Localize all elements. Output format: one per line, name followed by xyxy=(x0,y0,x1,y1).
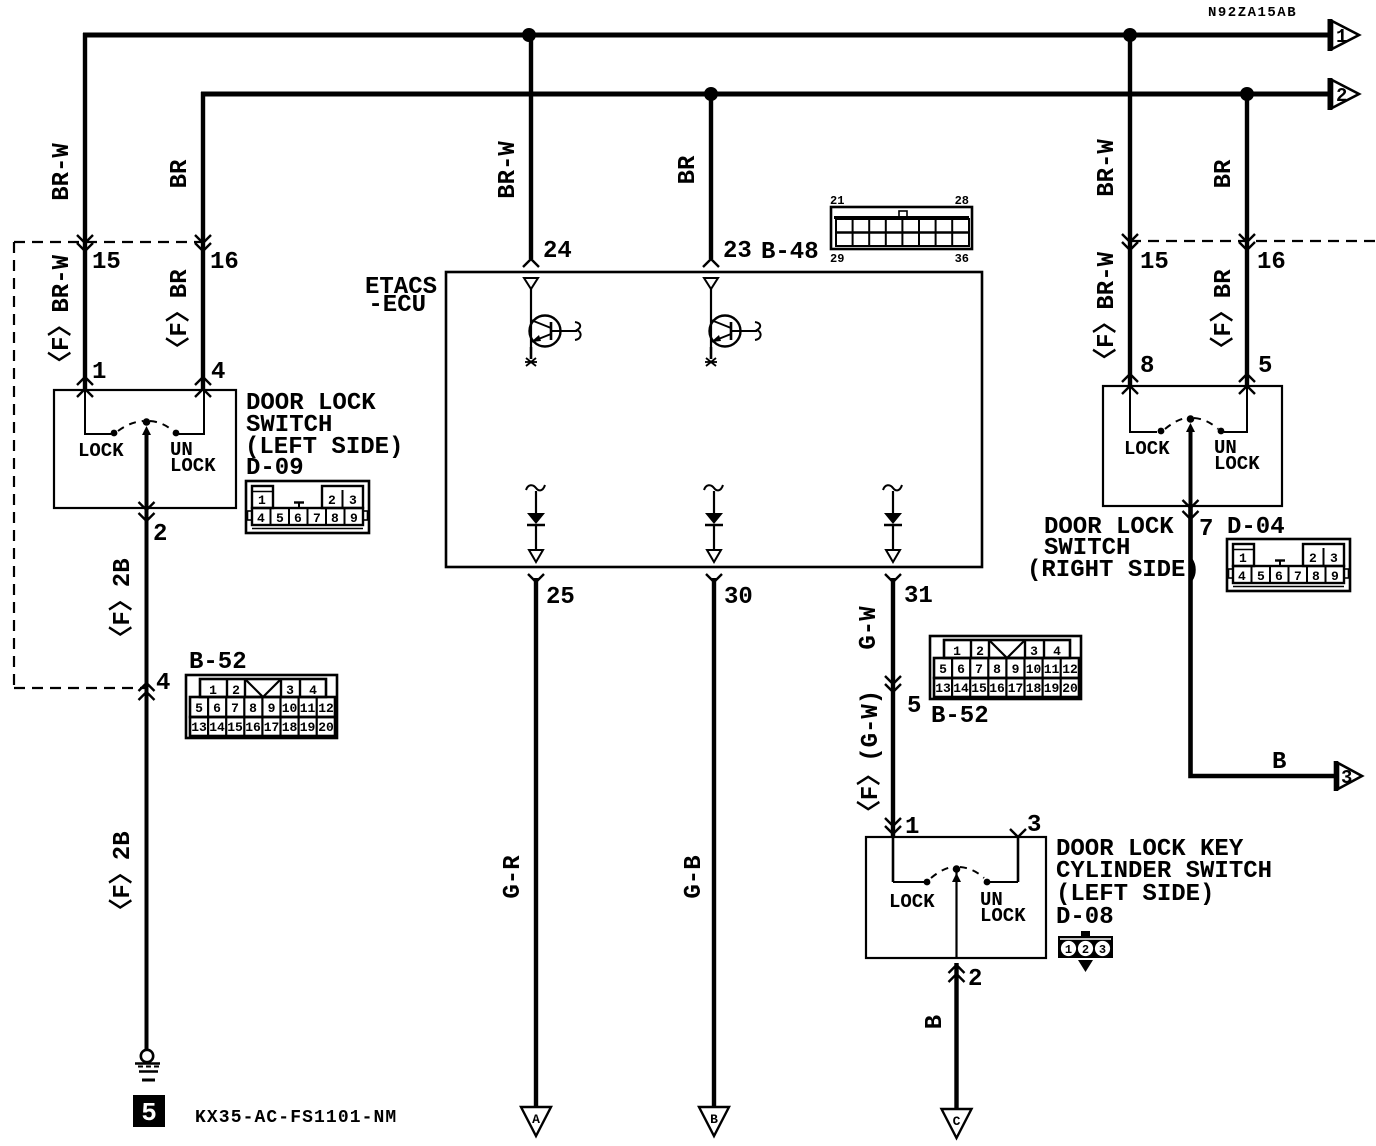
svg-text:B: B xyxy=(922,1015,949,1029)
wire: BR-W drop to D-09 pin 1 (x=85) xyxy=(83,33,87,390)
svg-text:3: 3 xyxy=(286,683,294,698)
transistor Q (pin 24 driver) xyxy=(524,278,581,366)
svg-text:A: A xyxy=(532,1112,540,1127)
contact UNLOCK xyxy=(1218,428,1225,435)
switch S: door lock key cylinder switch D-08 box xyxy=(866,837,1046,958)
svg-text:LOCK: LOCK xyxy=(980,905,1026,927)
diode D (pin 31 branch) xyxy=(883,485,902,562)
connector B-48 pin diagram xyxy=(830,194,972,266)
svg-text:15: 15 xyxy=(1140,249,1169,276)
dashed wiper arcs xyxy=(931,867,953,878)
svg-text:〈F〉(G-W): 〈F〉(G-W) xyxy=(856,690,885,824)
wire G-B to arrow B xyxy=(712,578,716,1108)
svg-text:2: 2 xyxy=(968,966,982,993)
svg-text:7: 7 xyxy=(1199,516,1213,543)
svg-text:7: 7 xyxy=(231,701,239,716)
svg-text:17: 17 xyxy=(264,720,280,735)
connector marks pin 7 xyxy=(1183,500,1199,508)
switch pivot xyxy=(1187,415,1195,423)
svg-text:4: 4 xyxy=(211,359,225,386)
ETACS pin 30 mark xyxy=(706,574,722,582)
svg-text:36: 36 xyxy=(955,252,969,266)
connector marks pin 1 of D-08 xyxy=(885,818,901,826)
connector mark pin 24 xyxy=(523,259,539,267)
svg-text:3: 3 xyxy=(1027,812,1041,839)
svg-text:〈F〉2B: 〈F〉2B xyxy=(108,558,137,649)
connector marks pin 5 of B-52 xyxy=(885,676,901,684)
svg-text:15: 15 xyxy=(92,249,121,276)
switch S: door lock switch left D-09 box xyxy=(54,390,236,508)
svg-text:G-B: G-B xyxy=(681,855,708,898)
svg-text:4: 4 xyxy=(309,683,317,698)
switch S: door lock switch right D-04 box xyxy=(1103,386,1282,506)
wiper arrow xyxy=(952,873,961,882)
svg-text:9: 9 xyxy=(350,511,358,526)
svg-text:5: 5 xyxy=(1258,353,1272,380)
wire pin 7 to off-page arrow 3 xyxy=(1191,506,1337,776)
svg-text:8: 8 xyxy=(331,511,339,526)
wire B to arrow C xyxy=(954,963,958,1110)
svg-text:2: 2 xyxy=(153,521,167,548)
connector mark pin 3 xyxy=(1010,829,1026,837)
contact LOCK xyxy=(111,430,118,437)
connector marks 16 on dashed line xyxy=(1239,234,1255,242)
wire G-R to arrow A xyxy=(534,578,538,1108)
wire pin5 internal xyxy=(1224,386,1247,432)
svg-text:24: 24 xyxy=(543,238,572,265)
connector marks pin 4 of B-52 xyxy=(139,683,155,691)
sheet number 5 xyxy=(133,1095,165,1127)
contact UNLOCK xyxy=(984,879,991,886)
junction on bus 1 at x=528 xyxy=(522,28,536,42)
svg-text:2: 2 xyxy=(328,493,336,508)
wire: BR drop to D-09 pin 4 (x=203) xyxy=(201,92,205,390)
svg-text:1: 1 xyxy=(258,493,266,508)
svg-text:1: 1 xyxy=(92,359,106,386)
off-page arrow C xyxy=(942,1109,972,1138)
ETACS pin 31 mark xyxy=(885,574,901,582)
svg-text:〈F〉BR: 〈F〉BR xyxy=(1209,269,1238,361)
wire G-W to key cylinder switch xyxy=(891,578,895,837)
wire pin1 internal xyxy=(85,390,111,434)
svg-text:2: 2 xyxy=(232,683,240,698)
svg-text:16: 16 xyxy=(210,249,239,276)
wire: BR-W drop to D-04 pin 8 (x=1130) xyxy=(1128,33,1132,386)
wire pin4 internal xyxy=(179,390,204,434)
svg-text:D-08: D-08 xyxy=(1056,904,1114,931)
off-page arrow 3 xyxy=(1336,761,1362,791)
wire pin8 internal xyxy=(1130,386,1157,432)
svg-text:B: B xyxy=(710,1112,718,1127)
svg-text:2: 2 xyxy=(1082,943,1089,957)
dashed harness boundary right xyxy=(1130,240,1376,242)
off-page arrow B xyxy=(699,1107,729,1136)
svg-text:1: 1 xyxy=(1336,26,1347,48)
svg-text:LOCK: LOCK xyxy=(1214,453,1260,475)
svg-text:BR-W: BR-W xyxy=(1094,139,1121,197)
wire common to pin 2 xyxy=(955,869,957,958)
svg-text:15: 15 xyxy=(227,720,243,735)
connector marks pin 1 into D-09 xyxy=(77,377,93,385)
svg-text:BR-W: BR-W xyxy=(49,143,76,201)
dashed wiper arcs xyxy=(1165,418,1187,429)
dashed harness boundary left xyxy=(14,241,203,243)
svg-text:KX35-AC-FS1101-NM: KX35-AC-FS1101-NM xyxy=(195,1108,397,1128)
svg-text:19: 19 xyxy=(300,720,316,735)
wire: power bus 2 (horizontal) xyxy=(201,92,1330,97)
ground xyxy=(135,1050,160,1080)
off-page arrow 1 xyxy=(1330,19,1359,51)
wire pin1 internal xyxy=(892,837,895,882)
dashed wiper arcs xyxy=(118,421,143,431)
ETACS pin 25 mark xyxy=(528,574,544,582)
svg-text:1: 1 xyxy=(209,683,217,698)
diode D (pin 30 branch) xyxy=(704,485,723,562)
svg-text:31: 31 xyxy=(904,583,933,610)
wiper arrow xyxy=(142,426,151,435)
svg-text:23: 23 xyxy=(723,238,752,265)
svg-text:LOCK: LOCK xyxy=(78,440,124,462)
junction on bus 1 at x=1130 xyxy=(1123,28,1137,42)
svg-text:〈F〉BR: 〈F〉BR xyxy=(165,269,194,361)
svg-text:C: C xyxy=(953,1114,961,1129)
wire (F)2B from pin 2 to B-52 pin 4 xyxy=(145,508,149,688)
wire common to pin 2 xyxy=(145,433,149,508)
junction on bus 2 at x=711 xyxy=(704,87,718,101)
wiper arrow xyxy=(1186,423,1195,432)
svg-text:1: 1 xyxy=(1065,943,1072,957)
ETACS-ECU box xyxy=(446,272,982,567)
svg-text:LOCK: LOCK xyxy=(889,891,935,913)
wire common to pin 7 xyxy=(1189,430,1193,506)
switch pivot xyxy=(143,418,151,426)
svg-text:5: 5 xyxy=(195,701,203,716)
svg-text:3: 3 xyxy=(349,493,357,508)
svg-text:〈F〉2B: 〈F〉2B xyxy=(108,831,137,922)
connector B-52 pin diagram (left) xyxy=(186,675,337,738)
wire (F)2B to ground xyxy=(145,688,149,1050)
connector marks pin 5 into D-04 xyxy=(1239,374,1255,382)
connector D-04 pin diagram xyxy=(1227,539,1350,591)
svg-text:13: 13 xyxy=(191,720,207,735)
svg-text:30: 30 xyxy=(724,584,753,611)
svg-text:9: 9 xyxy=(268,701,276,716)
svg-text:18: 18 xyxy=(282,720,298,735)
connector D-09 pin diagram xyxy=(246,481,369,533)
svg-text:7: 7 xyxy=(313,511,321,526)
svg-text:B: B xyxy=(1272,749,1286,776)
svg-text:12: 12 xyxy=(318,701,334,716)
diode D (pin 25 branch) xyxy=(526,485,545,562)
svg-text:-ECU: -ECU xyxy=(368,292,426,319)
svg-text:11: 11 xyxy=(300,701,316,716)
svg-text:G-W: G-W xyxy=(856,606,883,650)
wire: BR-W drop to ETACS pin 24 (x=531) xyxy=(529,33,533,259)
svg-text:16: 16 xyxy=(245,720,261,735)
svg-text:10: 10 xyxy=(282,701,298,716)
svg-text:6: 6 xyxy=(213,701,221,716)
svg-text:6: 6 xyxy=(294,511,302,526)
svg-text:5: 5 xyxy=(141,1098,157,1128)
switch pivot xyxy=(953,865,961,873)
svg-text:〈F〉BR-W: 〈F〉BR-W xyxy=(47,254,76,375)
connector marks pin 2 xyxy=(949,965,965,973)
connector D-08 pin diagram xyxy=(1058,931,1113,972)
svg-text:N92ZA15AB: N92ZA15AB xyxy=(1208,5,1297,21)
svg-text:14: 14 xyxy=(209,720,225,735)
svg-text:3: 3 xyxy=(1099,943,1106,957)
connector marks pin 2 xyxy=(139,502,155,510)
svg-text:BR: BR xyxy=(675,155,702,184)
svg-text:25: 25 xyxy=(546,584,575,611)
svg-text:D-04: D-04 xyxy=(1227,514,1285,541)
connector B-52 pin diagram (right) xyxy=(930,636,1081,699)
connector marks 15 on dashed line xyxy=(1122,234,1138,242)
off-page arrow A xyxy=(521,1107,551,1136)
svg-text:16: 16 xyxy=(1257,249,1286,276)
contact LOCK xyxy=(924,879,931,886)
svg-text:B-52: B-52 xyxy=(189,649,247,676)
svg-text:LOCK: LOCK xyxy=(1124,438,1170,460)
svg-text:4: 4 xyxy=(156,670,170,697)
connector mark pin 23 xyxy=(703,259,719,267)
svg-text:〈F〉BR-W: 〈F〉BR-W xyxy=(1092,251,1121,372)
junction on bus 2 at x=1247 xyxy=(1240,87,1254,101)
connector marks pin 4 into D-09 xyxy=(195,377,211,385)
wire pin3 internal xyxy=(1017,837,1020,882)
connector marks 15 on dashed line xyxy=(77,235,93,243)
contact UNLOCK xyxy=(173,430,180,437)
svg-text:29: 29 xyxy=(830,252,844,266)
wire: BR drop to D-04 pin 5 (x=1247) xyxy=(1245,92,1249,386)
svg-text:B-52: B-52 xyxy=(931,703,989,730)
contact LOCK xyxy=(1158,428,1165,435)
svg-text:3: 3 xyxy=(1341,767,1352,789)
svg-text:2: 2 xyxy=(1336,85,1347,107)
svg-text:8: 8 xyxy=(1140,353,1154,380)
svg-text:D-09: D-09 xyxy=(246,455,304,482)
svg-text:G-R: G-R xyxy=(500,855,527,899)
off-page arrow 2 xyxy=(1330,78,1359,110)
svg-text:B-48: B-48 xyxy=(761,239,819,266)
wire: power bus 1 (horizontal, top) xyxy=(83,33,1330,38)
svg-text:(RIGHT SIDE): (RIGHT SIDE) xyxy=(1027,557,1200,584)
connector marks pin 8 into D-04 xyxy=(1122,374,1138,382)
svg-text:8: 8 xyxy=(249,701,257,716)
svg-text:5: 5 xyxy=(276,511,284,526)
wire: BR drop to ETACS pin 23 (x=711) xyxy=(709,92,713,259)
svg-text:LOCK: LOCK xyxy=(170,455,216,477)
svg-text:20: 20 xyxy=(318,720,334,735)
svg-text:BR: BR xyxy=(167,159,194,188)
connector marks 16 on dashed line xyxy=(195,235,211,243)
svg-text:5: 5 xyxy=(907,693,921,720)
svg-text:4: 4 xyxy=(257,511,265,526)
transistor Q (pin 23 driver) xyxy=(704,278,761,366)
svg-text:BR-W: BR-W xyxy=(495,141,522,199)
svg-text:BR: BR xyxy=(1211,159,1238,188)
